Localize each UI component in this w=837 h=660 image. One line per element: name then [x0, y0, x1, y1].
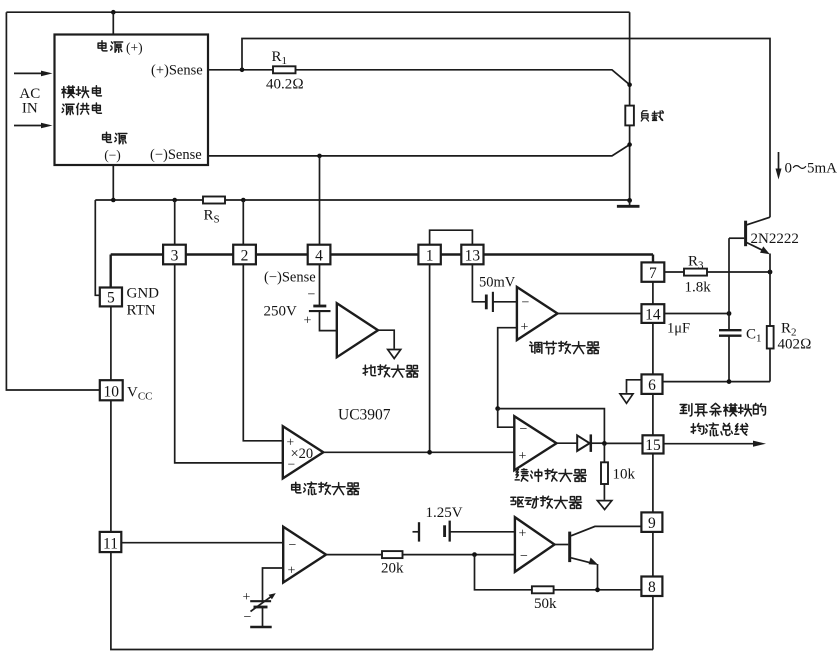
svg-text:11: 11 — [103, 536, 118, 553]
wire pin15 output arrow — [664, 443, 759, 445]
wire plus sense — [208, 70, 630, 85]
wire emitter to 50k row — [597, 564, 599, 590]
svg-text:402Ω: 402Ω — [778, 337, 812, 353]
svg-text:(−)Sense: (−)Sense — [150, 147, 202, 163]
svg-text:4: 4 — [315, 248, 323, 265]
svg-text:9: 9 — [648, 515, 656, 532]
label 到其余模块的 — [680, 403, 765, 416]
wire pin10 to pin11 — [110, 400, 112, 532]
node load bottom — [627, 142, 632, 147]
arrow on adjustable battery — [251, 596, 273, 612]
wire PSU minus pin — [112, 165, 114, 200]
label 电流放大器 — [292, 482, 359, 495]
wire driver feedback down — [475, 555, 532, 590]
transistor 2N2222 collector — [747, 217, 770, 225]
transistor 2N2222 emitter — [747, 243, 767, 253]
svg-text:−: − — [289, 538, 297, 553]
module PSU box — [55, 35, 209, 166]
wire error amp output to 20k — [326, 554, 382, 556]
wire loop over pins 1 13 — [430, 230, 473, 244]
svg-text:+: + — [288, 564, 296, 579]
battery 250V — [313, 305, 326, 308]
wire C1 vertical — [728, 238, 730, 329]
wire pin6 to R2 — [663, 381, 771, 383]
wire pin11 to bottom rail — [111, 552, 653, 649]
svg-text:−: − — [520, 549, 528, 564]
svg-text:8: 8 — [648, 579, 656, 596]
svg-text:7: 7 — [649, 265, 657, 282]
wire pin2 vertical — [243, 200, 282, 441]
wire reg amp plus input down — [498, 328, 517, 409]
svg-text:−: − — [522, 296, 530, 311]
wire buffer minus input — [498, 409, 515, 428]
resistor R3 — [684, 269, 707, 276]
node load top — [627, 82, 632, 87]
node driver feedback — [472, 552, 477, 557]
resistor R1 — [273, 66, 296, 73]
wire 50mV to reg amp — [494, 301, 517, 303]
pin 6 — [642, 374, 663, 394]
transistor driver base — [555, 544, 569, 546]
svg-text:IN: IN — [22, 101, 38, 117]
node buffer feedback — [495, 406, 500, 411]
wire right pin column — [652, 282, 654, 650]
pin 11 — [100, 532, 122, 552]
node minus sense to pin4 — [317, 154, 322, 159]
wire battery to ground amp — [320, 312, 337, 331]
svg-text:(+): (+) — [126, 40, 143, 55]
resistor 20k — [382, 551, 403, 558]
node RS pin3 — [172, 198, 177, 203]
wire load vertical — [629, 12, 631, 200]
pin 2 — [233, 245, 256, 265]
svg-text:−: − — [244, 610, 252, 625]
svg-text:−: − — [288, 457, 296, 472]
wire pin15 left to diode node — [604, 442, 642, 444]
svg-text:1μF: 1μF — [667, 321, 690, 337]
wire buffer feedback loop — [498, 409, 605, 444]
svg-text:0～5mA: 0～5mA — [785, 161, 837, 177]
svg-text:250V: 250V — [264, 304, 298, 320]
ground symbol 10k — [597, 501, 611, 510]
wire reg amp output to pin14 — [558, 313, 642, 315]
label 电源(+) — [98, 41, 123, 53]
label 地放大器 — [363, 365, 418, 377]
transistor driver emitter — [571, 558, 595, 564]
pin 9 — [641, 512, 662, 532]
wire rail 2 to transistor collector — [242, 39, 770, 218]
node R3 emitter — [768, 270, 773, 275]
svg-text:10k: 10k — [613, 467, 636, 483]
wire R3 row — [664, 271, 770, 273]
wire pin bus row — [111, 255, 653, 263]
wire pin6 left ground — [627, 380, 642, 393]
transistor 2N2222 bar — [744, 221, 747, 247]
pin 1 — [418, 245, 440, 265]
node emitter 50k — [595, 587, 600, 592]
node pin14 C1 — [727, 311, 732, 316]
svg-text:+: + — [243, 590, 251, 605]
label 电源(-) bottom — [103, 132, 127, 144]
wire 50k to pin8 — [554, 589, 642, 591]
svg-text:40.2Ω: 40.2Ω — [266, 77, 304, 93]
resistor load — [625, 106, 634, 126]
diode buffer output — [557, 442, 578, 444]
pin 10 — [100, 380, 123, 400]
ground symbol pin6 — [620, 394, 633, 403]
wire current arrow 0-5mA — [778, 152, 780, 172]
wire pin13 vertical to 50mV — [472, 264, 486, 302]
op-amp driver amplifier — [515, 517, 555, 572]
svg-text:+: + — [304, 314, 312, 329]
wire 1.25V to driver plus — [450, 531, 515, 533]
wire minus sense — [208, 145, 630, 156]
battery 1.25V — [413, 531, 420, 533]
pin 14 — [642, 304, 665, 323]
pin 13 — [461, 245, 483, 265]
resistor RS — [203, 197, 225, 204]
svg-text:50mV: 50mV — [479, 275, 516, 291]
wire AC IN arrow 2 — [14, 125, 45, 127]
wire 20k to driver minus — [403, 554, 515, 556]
svg-text:UC3907: UC3907 — [338, 407, 391, 424]
svg-text:2: 2 — [241, 248, 249, 265]
svg-text:+: + — [519, 449, 527, 464]
transistor driver collector — [571, 526, 641, 535]
wire pin1 vertical — [429, 264, 431, 452]
wire error amp plus input — [263, 568, 284, 601]
ground under load — [629, 200, 631, 205]
label 模块电 — [62, 86, 102, 98]
op-amp buffer amplifier — [514, 416, 556, 470]
svg-text:−: − — [520, 422, 528, 437]
wire ground amp output — [378, 330, 394, 349]
svg-text:RTN: RTN — [127, 303, 156, 319]
node diode junction — [602, 441, 607, 446]
battery 50mV — [485, 295, 488, 310]
label 驱动放大器 — [511, 496, 582, 508]
svg-text:50k: 50k — [534, 596, 557, 612]
wire RS rail — [95, 200, 629, 295]
svg-text:6: 6 — [648, 377, 656, 394]
wire top rail V+ — [6, 12, 629, 390]
svg-text:14: 14 — [645, 307, 661, 324]
svg-text:2N2222: 2N2222 — [751, 231, 799, 247]
svg-text:AC: AC — [19, 86, 40, 102]
wire bus left corner to pin5 — [109, 255, 111, 288]
wire pin11 to error amp minus — [121, 542, 283, 544]
resistor 10k — [603, 443, 605, 462]
op-amp ground amplifier — [337, 303, 378, 357]
svg-text:+: + — [521, 320, 529, 335]
wire pin4 vertical to battery — [319, 156, 321, 305]
svg-text:20k: 20k — [381, 561, 404, 577]
svg-text:1: 1 — [426, 248, 434, 265]
svg-text:3: 3 — [171, 248, 179, 265]
node ground junction — [627, 198, 632, 203]
wire pin5 to pin10 — [110, 306, 112, 380]
transistor driver bar — [568, 532, 571, 563]
wire AC IN arrow 1 — [14, 72, 45, 74]
svg-text:−: − — [308, 288, 316, 303]
svg-text:1.8k: 1.8k — [685, 280, 712, 296]
node RS pin2 — [241, 198, 246, 203]
node x20 pin1 — [427, 450, 432, 455]
svg-text:15: 15 — [645, 437, 661, 454]
node plus sense branch — [240, 68, 245, 73]
pin 15 — [643, 435, 664, 453]
resistor R2 — [767, 326, 774, 349]
svg-text:(−)Sense: (−)Sense — [264, 270, 316, 286]
node RS PSU — [111, 198, 116, 203]
svg-text:+: + — [519, 527, 527, 542]
wire pin3 vertical — [175, 200, 283, 463]
ground symbol at ground amp — [388, 350, 401, 359]
op-amp current amplifier x20 — [283, 426, 324, 478]
pin 7 — [642, 262, 665, 281]
svg-text:GND: GND — [127, 286, 160, 302]
svg-text:(+)Sense: (+)Sense — [151, 63, 203, 79]
node C1 bottom — [727, 379, 732, 384]
label 均流总线 — [691, 423, 748, 436]
wire emitter down through R3 node to R2 — [769, 254, 771, 327]
svg-text:10: 10 — [103, 384, 119, 401]
op-amp error amplifier bottom left — [283, 527, 326, 583]
transistor 2N2222 base wire — [729, 237, 744, 239]
svg-text:1.25V: 1.25V — [426, 505, 463, 521]
battery adjustable — [250, 600, 271, 602]
wire PSU plus pin — [112, 12, 114, 34]
pin 4 — [308, 245, 331, 265]
capacitor C1 — [719, 329, 742, 331]
label 负载 — [641, 111, 663, 121]
wire pin14 to C1 node — [664, 313, 729, 315]
node top rail to PSU — [111, 10, 116, 15]
label 调节放大器 — [530, 341, 599, 353]
pin 8 — [641, 577, 662, 597]
resistor 50k — [532, 586, 554, 593]
pin 3 — [163, 245, 186, 265]
pin 5 — [100, 288, 122, 307]
label 源供电 — [62, 103, 101, 115]
wire x20 output to buffer — [323, 451, 514, 453]
svg-text:5: 5 — [107, 290, 115, 307]
svg-text:13: 13 — [465, 248, 481, 265]
op-amp regulating amplifier — [517, 287, 558, 340]
svg-text:(−): (−) — [104, 148, 121, 163]
label 缓冲放大器 — [515, 469, 586, 482]
